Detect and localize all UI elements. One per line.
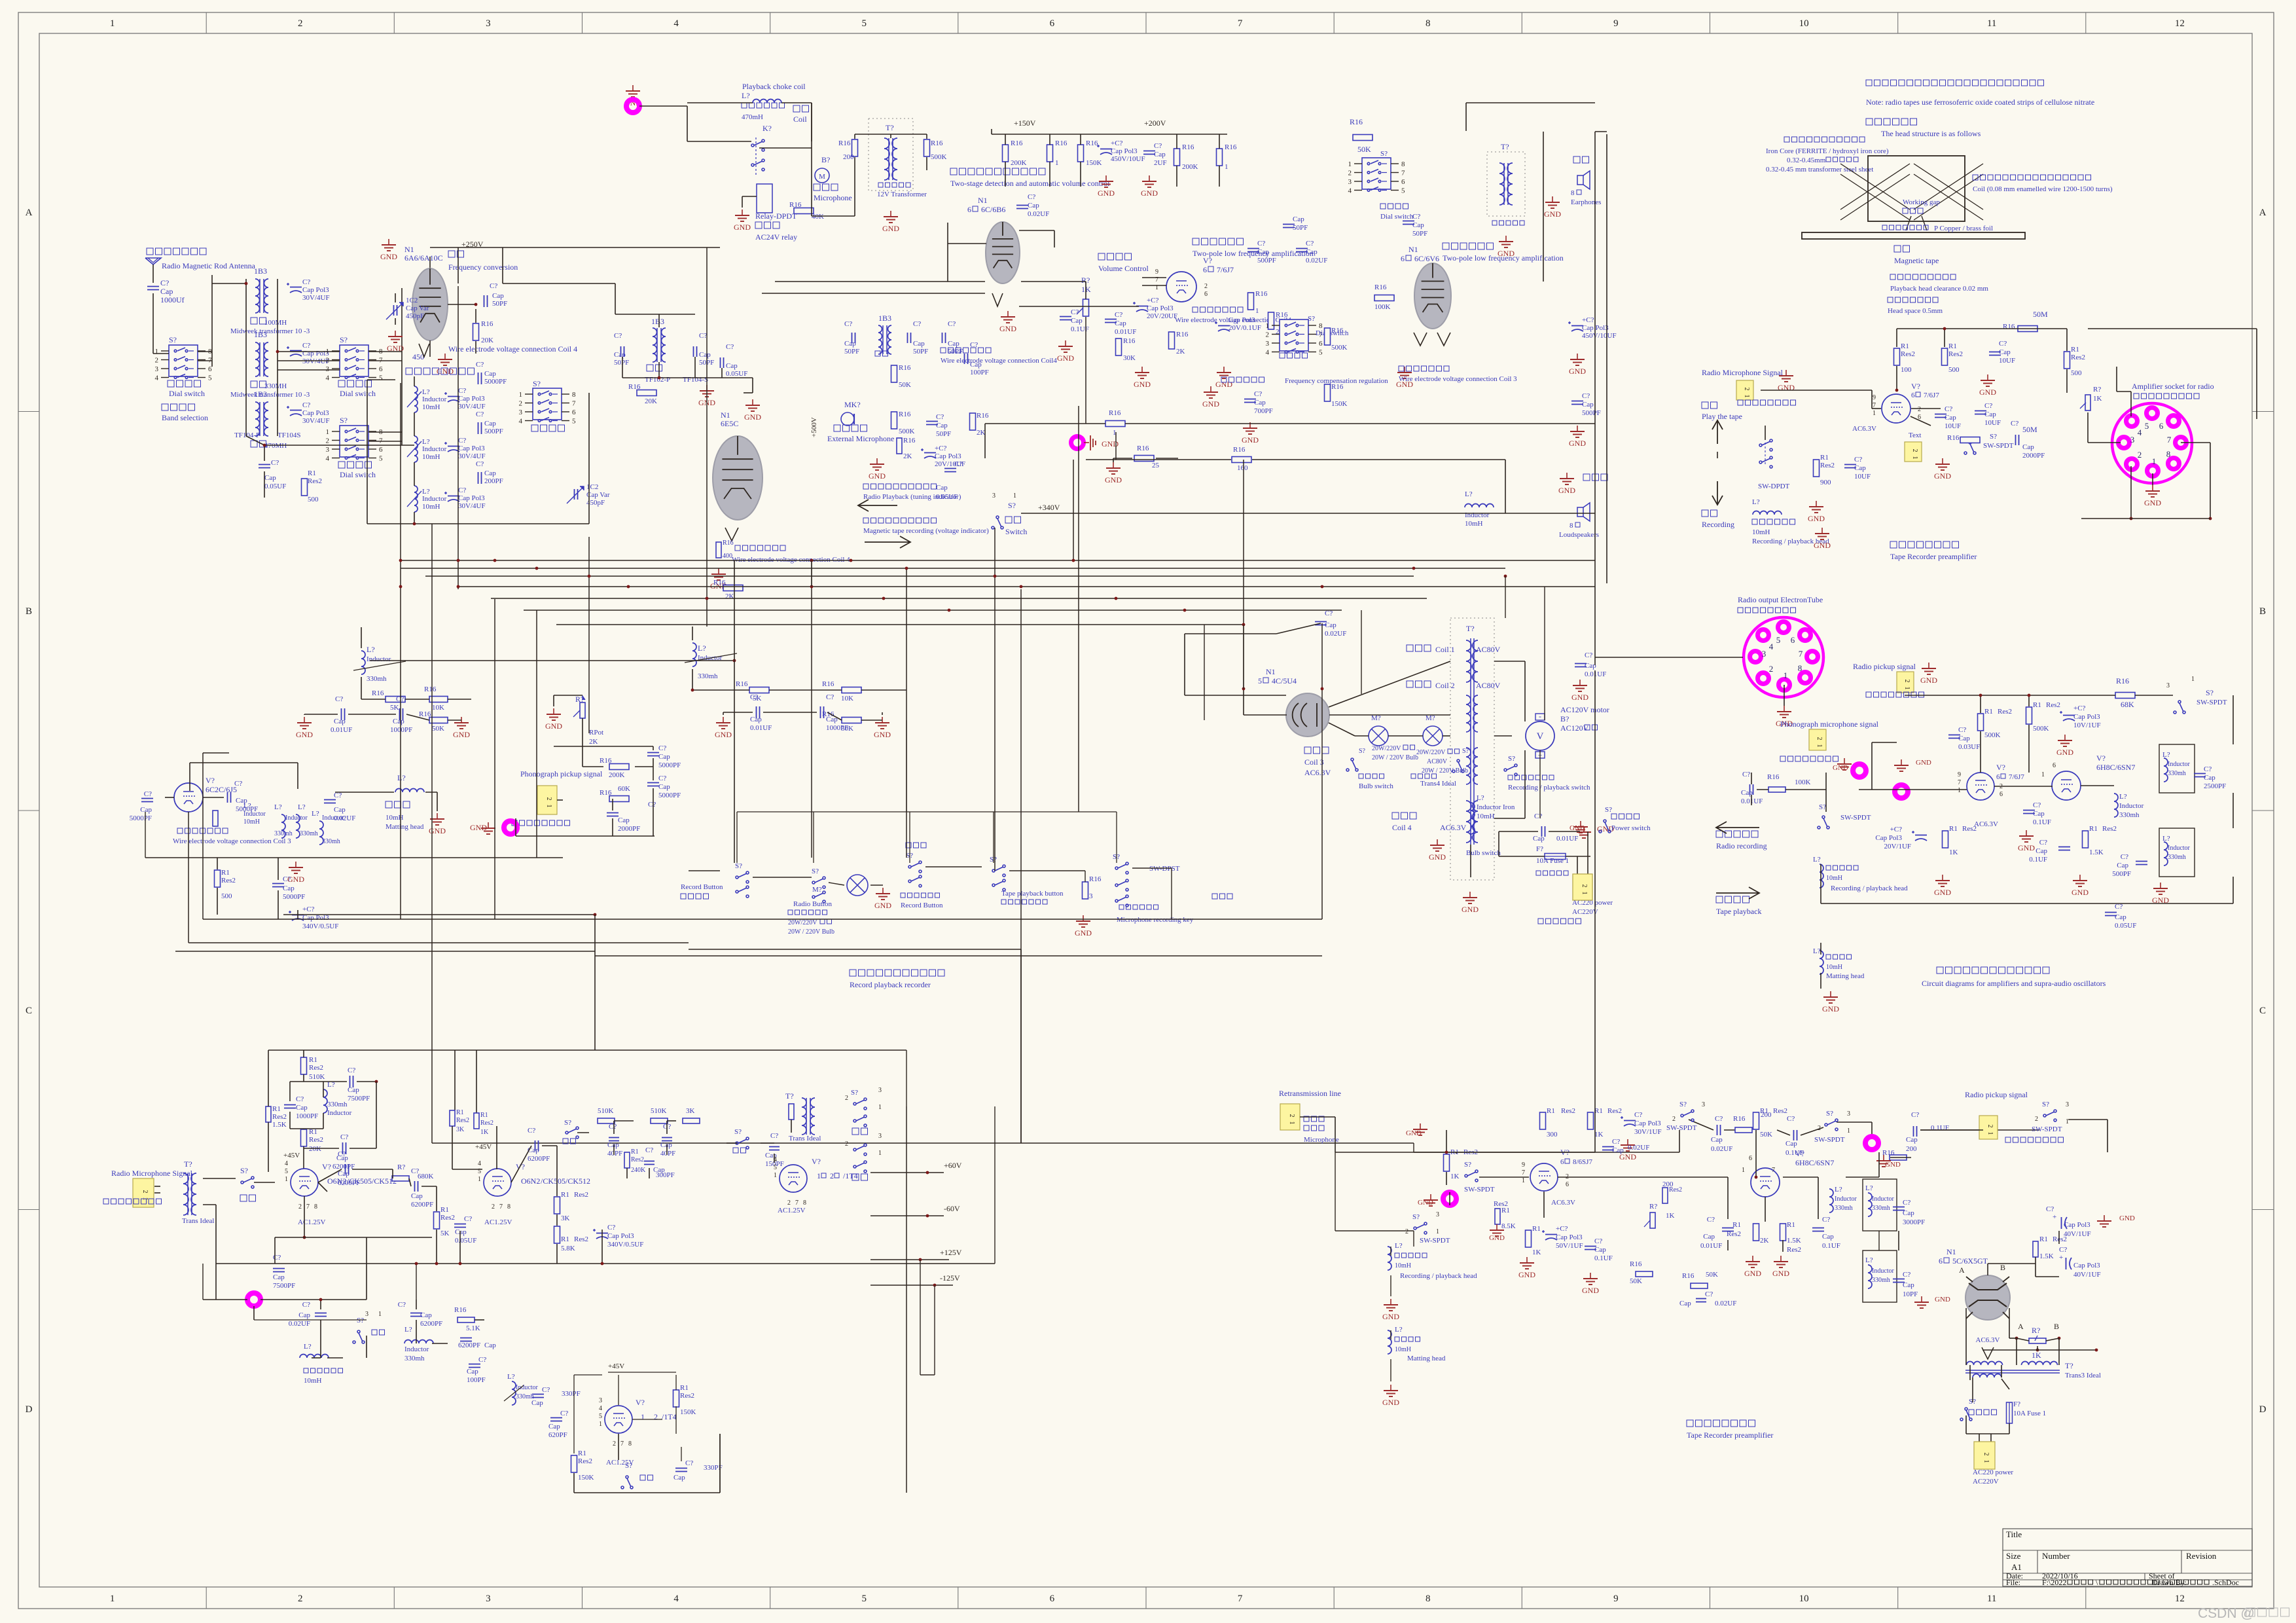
svg-text:/1T4: /1T4	[662, 1412, 677, 1421]
svg-text:Res2: Res2	[680, 1392, 694, 1400]
svg-text:R16: R16	[822, 680, 834, 688]
svg-text:Res2: Res2	[1948, 350, 1963, 358]
svg-text:Cap Pol3: Cap Pol3	[458, 494, 485, 502]
svg-text:R16: R16	[1350, 117, 1363, 126]
svg-text:330mh: 330mh	[2168, 854, 2186, 861]
svg-text:12: 12	[2175, 18, 2185, 29]
svg-text:7: 7	[620, 1440, 624, 1448]
svg-text:20K: 20K	[645, 397, 657, 405]
svg-text:N1: N1	[1266, 667, 1276, 676]
svg-text:C?: C?	[1612, 1138, 1620, 1146]
svg-text:2: 2	[1911, 449, 1918, 452]
svg-text:R16: R16	[838, 139, 851, 147]
svg-text:7: 7	[499, 1203, 503, 1211]
svg-text:68K: 68K	[2121, 700, 2134, 709]
svg-text:30V/4UF: 30V/4UF	[458, 403, 486, 410]
svg-text:3: 3	[1348, 178, 1352, 186]
svg-text:470mH: 470mH	[742, 113, 763, 121]
svg-text:1: 1	[1847, 1127, 1850, 1135]
svg-text:Wire electrode voltage connect: Wire electrode voltage connection Coil 4	[448, 344, 577, 354]
svg-text:10PF: 10PF	[1903, 1290, 1918, 1298]
svg-text:Cap: Cap	[2117, 862, 2128, 869]
svg-text:Title: Title	[2006, 1529, 2022, 1539]
svg-text:2: 2	[545, 797, 552, 801]
svg-text:200: 200	[843, 153, 854, 161]
svg-text:50M: 50M	[2033, 310, 2048, 319]
svg-text:MK?: MK?	[844, 400, 861, 409]
svg-text:Microphone recording key: Microphone recording key	[1117, 916, 1194, 924]
svg-text:Cap: Cap	[1071, 317, 1083, 325]
svg-text:2: 2	[519, 400, 523, 408]
svg-text:7: 7	[306, 1203, 310, 1211]
svg-text:C?: C?	[1999, 340, 2007, 348]
svg-text:Radio Microphone Signal: Radio Microphone Signal	[111, 1169, 193, 1178]
svg-text:T?: T?	[785, 1091, 794, 1101]
svg-text:500K: 500K	[1331, 344, 1348, 352]
svg-text:GND: GND	[296, 730, 313, 739]
svg-text:Cap: Cap	[660, 1141, 672, 1149]
svg-text:Cap: Cap	[1958, 735, 1970, 742]
svg-text:C?: C?	[913, 320, 921, 328]
svg-text:Radio output ElectronTube: Radio output ElectronTube	[1738, 595, 1823, 604]
svg-text:Cap: Cap	[658, 753, 670, 761]
svg-text:5: 5	[599, 1413, 602, 1420]
svg-text:R1: R1	[2039, 1235, 2048, 1243]
svg-text:Cap Pol3: Cap Pol3	[1111, 147, 1138, 155]
svg-text:+C?: +C?	[1556, 1225, 1568, 1233]
svg-text:R1: R1	[1984, 708, 1993, 716]
svg-text:Note: radio tapes use ferrosof: Note: radio tapes use ferrosoferric oxid…	[1866, 98, 2094, 107]
svg-text:Record Button: Record Button	[681, 883, 723, 891]
svg-text:2: 2	[787, 1199, 791, 1207]
svg-text:V?: V?	[636, 1398, 645, 1407]
svg-text:N1: N1	[1946, 1247, 1956, 1256]
svg-text:GND: GND	[999, 324, 1016, 333]
svg-text:R16: R16	[1233, 446, 1246, 454]
svg-text:7: 7	[1772, 1167, 1775, 1174]
svg-text:Res2: Res2	[1607, 1107, 1622, 1115]
svg-text:R16: R16	[713, 579, 726, 587]
svg-text:6: 6	[1401, 254, 1405, 263]
svg-text:5: 5	[285, 1168, 288, 1175]
svg-text:6: 6	[1911, 392, 1915, 399]
svg-text:100: 100	[1901, 366, 1912, 374]
svg-text:Res2: Res2	[2046, 701, 2060, 709]
svg-text:+C?: +C?	[302, 905, 315, 913]
svg-text:6: 6	[1204, 291, 1208, 298]
svg-text:3: 3	[878, 1087, 882, 1094]
svg-text:Res2: Res2	[1773, 1107, 1787, 1115]
svg-text:+C?: +C?	[2073, 704, 2086, 712]
svg-text:Cap: Cap	[913, 340, 925, 348]
svg-text:330MH: 330MH	[264, 382, 287, 390]
svg-text:A1: A1	[2011, 1562, 2022, 1572]
svg-text:6200PF: 6200PF	[420, 1320, 442, 1328]
svg-text:500PF: 500PF	[484, 428, 503, 435]
svg-text:C?: C?	[1903, 1199, 1910, 1207]
svg-text:Res2: Res2	[578, 1457, 592, 1465]
svg-text:10mH: 10mH	[1826, 964, 1842, 971]
svg-text:0.05UF: 0.05UF	[936, 493, 958, 501]
svg-text:2500PF: 2500PF	[2204, 782, 2226, 790]
svg-text:S?: S?	[1826, 1110, 1833, 1118]
svg-text:Circuit diagrams for amplifier: Circuit diagrams for amplifiers and supr…	[1922, 979, 2106, 988]
svg-text:+: +	[2053, 1213, 2056, 1221]
svg-text:GND: GND	[1934, 888, 1951, 897]
svg-text:AC1.25V: AC1.25V	[484, 1218, 512, 1226]
svg-text:S?: S?	[340, 335, 348, 344]
svg-text:10mH: 10mH	[422, 503, 440, 511]
svg-text:L?: L?	[1752, 498, 1760, 506]
svg-text:R1: R1	[309, 1128, 317, 1136]
svg-text:R1: R1	[1501, 1207, 1510, 1214]
svg-text:2: 2	[155, 357, 159, 365]
svg-text:1: 1	[1742, 1167, 1745, 1174]
svg-text:Cap: Cap	[298, 1311, 310, 1319]
svg-text:Recording / playback head: Recording / playback head	[1831, 884, 1908, 892]
svg-text:50M: 50M	[2022, 425, 2037, 434]
svg-text:C?: C?	[954, 460, 962, 468]
svg-text:50K: 50K	[1630, 1277, 1642, 1285]
svg-text:GND: GND	[1134, 380, 1151, 389]
svg-text:R16: R16	[628, 383, 641, 391]
svg-text:3: 3	[878, 1133, 882, 1140]
svg-text:Tape Recorder preamplifier: Tape Recorder preamplifier	[1687, 1431, 1773, 1440]
svg-text:0.05UF: 0.05UF	[455, 1237, 476, 1245]
svg-text:Cap: Cap	[334, 718, 346, 725]
svg-text:L?: L?	[507, 1373, 515, 1381]
svg-text:Inductor: Inductor	[422, 445, 447, 453]
svg-text:File:: File:	[2006, 1578, 2020, 1587]
svg-text:R1: R1	[2089, 825, 2098, 833]
svg-text:AC6.3V: AC6.3V	[1304, 768, 1331, 777]
svg-text:Radio Magnetic Rod Antenna: Radio Magnetic Rod Antenna	[162, 261, 256, 270]
svg-text:C?: C?	[1306, 240, 1314, 247]
svg-text:1: 1	[1348, 160, 1352, 168]
svg-text:SW-SPDT: SW-SPDT	[1420, 1237, 1450, 1245]
svg-text:2: 2	[1672, 1116, 1676, 1123]
svg-text:Revision: Revision	[2186, 1551, 2217, 1561]
svg-text:1B3: 1B3	[254, 330, 267, 339]
svg-text:C?: C?	[411, 1167, 419, 1175]
svg-text:C?: C?	[844, 320, 852, 328]
svg-text:M?: M?	[812, 886, 822, 894]
svg-text:GND: GND	[1462, 905, 1479, 914]
svg-text:1: 1	[478, 1176, 481, 1183]
svg-text:N1: N1	[721, 410, 730, 420]
svg-text:Power switch: Power switch	[1611, 824, 1651, 832]
svg-text:C?: C?	[699, 332, 707, 340]
svg-text:0.01UF: 0.01UF	[1556, 835, 1578, 843]
svg-text:3: 3	[486, 18, 491, 29]
svg-text:/1T4: /1T4	[843, 1171, 858, 1180]
svg-text:1: 1	[1784, 670, 1788, 680]
svg-text:GND: GND	[380, 252, 397, 261]
svg-text:Cap: Cap	[2036, 847, 2047, 855]
svg-text:Cap: Cap	[334, 806, 346, 814]
svg-text:C?: C?	[302, 278, 310, 286]
svg-text:Cap: Cap	[1854, 464, 1866, 472]
svg-text:0.02UF: 0.02UF	[289, 1320, 310, 1328]
svg-text:40PF: 40PF	[660, 1150, 675, 1158]
svg-text:7: 7	[1522, 1169, 1525, 1176]
svg-text:L?: L?	[274, 803, 282, 811]
svg-text:C?: C?	[750, 693, 758, 701]
svg-text:10V/1UF: 10V/1UF	[2073, 721, 2101, 729]
svg-text:Coil 2: Coil 2	[1435, 681, 1455, 690]
svg-text:C?: C?	[614, 332, 622, 340]
svg-text:R16: R16	[1882, 1149, 1895, 1157]
svg-text:4: 4	[599, 1405, 602, 1412]
svg-text:2: 2	[845, 1095, 848, 1102]
svg-text:GND: GND	[1382, 1398, 1399, 1407]
svg-text:C?: C?	[458, 486, 466, 494]
svg-text:Cap: Cap	[699, 351, 711, 359]
svg-text:Dial switch: Dial switch	[169, 389, 205, 398]
svg-text:200K: 200K	[1011, 159, 1027, 167]
svg-text:50V/1UF: 50V/1UF	[1556, 1242, 1583, 1250]
svg-text:GND: GND	[1098, 189, 1115, 198]
svg-text:Cap: Cap	[1711, 1136, 1723, 1144]
svg-text:O6N2: O6N2	[521, 1176, 540, 1186]
svg-text:330mh: 330mh	[404, 1355, 425, 1362]
svg-text:0.1UF: 0.1UF	[2029, 856, 2047, 864]
svg-text:1: 1	[1255, 307, 1259, 315]
svg-text:R16: R16	[1374, 283, 1387, 291]
svg-text:2K: 2K	[977, 429, 986, 437]
svg-text:-: -	[1539, 712, 1541, 721]
svg-text:L?: L?	[367, 645, 375, 654]
svg-text:AC1.25V: AC1.25V	[778, 1207, 806, 1214]
svg-text:470MH: 470MH	[264, 442, 287, 450]
svg-text:1: 1	[326, 428, 330, 436]
svg-text:AC6.3V: AC6.3V	[1551, 1199, 1575, 1207]
svg-text:50PF: 50PF	[1412, 230, 1427, 238]
svg-text:5.1K: 5.1K	[466, 1324, 480, 1332]
svg-text:Playback choke coil: Playback choke coil	[742, 82, 806, 91]
svg-text:2: 2	[1288, 1114, 1295, 1118]
svg-text:SW-DPST: SW-DPST	[1149, 865, 1180, 873]
svg-text:GND: GND	[2056, 748, 2073, 757]
svg-text:3K: 3K	[456, 1126, 465, 1133]
svg-text:10mH: 10mH	[422, 453, 440, 461]
svg-text:Record Button: Record Button	[901, 902, 943, 909]
svg-text:1: 1	[1225, 163, 1229, 171]
svg-text:Cap: Cap	[160, 287, 173, 296]
svg-text:GND: GND	[2072, 888, 2089, 897]
svg-text:Coil: Coil	[793, 115, 807, 124]
svg-text:20K: 20K	[481, 337, 493, 344]
svg-text:R16: R16	[1630, 1260, 1642, 1268]
svg-text:GND: GND	[545, 721, 562, 731]
svg-text:Record playback recorder: Record playback recorder	[850, 980, 931, 989]
svg-text:+340V: +340V	[1038, 503, 1060, 512]
svg-text:Res2: Res2	[221, 877, 236, 884]
svg-text:30V/4UF: 30V/4UF	[302, 357, 330, 365]
svg-text:2K: 2K	[1176, 348, 1185, 356]
svg-text:20V/0.1UF: 20V/0.1UF	[1229, 324, 1261, 332]
svg-text:C?: C?	[271, 459, 279, 467]
svg-text:6: 6	[2000, 791, 2003, 798]
svg-text:S?: S?	[735, 862, 742, 870]
svg-text:GND: GND	[1822, 1004, 1839, 1013]
svg-text:Microphone: Microphone	[1304, 1136, 1339, 1144]
svg-text:C?: C?	[770, 1132, 778, 1140]
svg-text:330mh: 330mh	[2119, 811, 2140, 819]
svg-text:Recording: Recording	[1702, 520, 1734, 529]
svg-text:Dial switch: Dial switch	[340, 470, 376, 479]
svg-text:10: 10	[1799, 1594, 1809, 1604]
svg-text:S?: S?	[1464, 1161, 1471, 1169]
svg-text:10UF: 10UF	[1945, 422, 1961, 430]
svg-text:10mH: 10mH	[304, 1377, 322, 1385]
svg-text:Cap Pol3: Cap Pol3	[302, 286, 329, 294]
svg-text:510K: 510K	[309, 1073, 325, 1081]
svg-text:200K: 200K	[1182, 163, 1198, 171]
svg-text:C?: C?	[1028, 193, 1035, 201]
svg-text:4: 4	[673, 18, 679, 29]
svg-text:Cap: Cap	[283, 884, 295, 892]
svg-text:1: 1	[1903, 687, 1910, 690]
svg-text:L?: L?	[1813, 947, 1821, 955]
svg-text:R16: R16	[2116, 676, 2129, 685]
svg-text:S?: S?	[1412, 1213, 1420, 1221]
svg-text:Bulb switch: Bulb switch	[1359, 782, 1393, 790]
svg-text:Cap: Cap	[614, 351, 626, 359]
svg-text:Trans Ideal: Trans Ideal	[182, 1217, 214, 1225]
svg-text:2: 2	[1903, 680, 1910, 683]
svg-text:30V/4UF: 30V/4UF	[458, 502, 486, 510]
svg-text:C?: C?	[2046, 1205, 2054, 1213]
svg-text:+500V: +500V	[810, 417, 818, 437]
svg-text:Cap: Cap	[264, 474, 276, 482]
svg-text:Inductor: Inductor	[1872, 1195, 1895, 1203]
svg-text:8: 8	[1401, 160, 1405, 168]
svg-text:Trans4 Ideal: Trans4 Ideal	[1420, 780, 1456, 788]
svg-text:5000PF: 5000PF	[658, 761, 681, 769]
svg-text:1: 1	[1982, 1460, 1990, 1463]
svg-text:L?: L?	[1395, 1326, 1403, 1334]
svg-text:Cap: Cap	[467, 1368, 478, 1376]
svg-text:R1: R1	[2033, 701, 2041, 709]
svg-text:C: C	[26, 1006, 32, 1016]
svg-text:T?: T?	[886, 123, 894, 132]
svg-text:R16: R16	[1682, 1272, 1695, 1280]
svg-text:C?: C?	[2011, 420, 2018, 428]
svg-text:S?: S?	[851, 1089, 858, 1097]
svg-text:2: 2	[141, 1190, 149, 1194]
svg-text:10UF: 10UF	[1999, 357, 2015, 365]
svg-text:AC220V: AC220V	[1973, 1478, 1999, 1486]
svg-text:Cap: Cap	[484, 1341, 496, 1349]
svg-text:5C/6X5GT: 5C/6X5GT	[1952, 1256, 1988, 1266]
svg-text:100K: 100K	[1374, 303, 1391, 311]
svg-text:12V Transformer: 12V Transformer	[877, 191, 927, 198]
svg-text:AC6.3V: AC6.3V	[1976, 1336, 2000, 1344]
svg-text:4: 4	[326, 455, 330, 463]
svg-text:S?: S?	[1679, 1101, 1687, 1108]
svg-text:Cap Var: Cap Var	[406, 304, 429, 312]
svg-text:1: 1	[519, 391, 523, 399]
svg-text:3000PF: 3000PF	[1903, 1218, 1925, 1226]
svg-text:C?: C?	[1854, 456, 1862, 464]
svg-text:F?: F?	[2013, 1400, 2020, 1408]
svg-text:S?: S?	[1462, 748, 1469, 755]
svg-text:Res2: Res2	[631, 1156, 644, 1163]
svg-text:2: 2	[1405, 1228, 1408, 1235]
svg-text:1C2: 1C2	[586, 483, 598, 491]
svg-text:Cap: Cap	[484, 370, 496, 378]
svg-text:8: 8	[1571, 189, 1575, 197]
svg-text:2: 2	[654, 1412, 658, 1421]
svg-text:Wire electrode voltage connect: Wire electrode voltage connection Coil 3	[1399, 375, 1517, 383]
svg-text:R16: R16	[1767, 773, 1780, 781]
svg-text:3: 3	[326, 365, 330, 373]
svg-text:20K: 20K	[309, 1145, 321, 1153]
svg-text:+125V: +125V	[940, 1248, 962, 1257]
svg-text:Res2: Res2	[1787, 1246, 1801, 1254]
svg-text:N1: N1	[978, 196, 988, 205]
svg-text:500K: 500K	[1984, 731, 2001, 739]
svg-text:1: 1	[110, 18, 115, 29]
svg-text:+C?: +C?	[1111, 139, 1123, 147]
svg-text:L?: L?	[742, 91, 750, 100]
svg-text:R1: R1	[480, 1112, 488, 1119]
svg-text:Cap Pol3: Cap Pol3	[1875, 834, 1902, 842]
svg-text:2: 2	[1982, 1453, 1990, 1456]
svg-text:2: 2	[1743, 388, 1750, 391]
svg-text:10mH: 10mH	[1395, 1262, 1411, 1269]
svg-text:0.02UF: 0.02UF	[1306, 257, 1327, 264]
svg-text:20V/20UF: 20V/20UF	[1147, 312, 1177, 320]
svg-text:B?: B?	[1560, 714, 1569, 723]
svg-text:9: 9	[1958, 771, 1961, 778]
svg-text:+C?: +C?	[935, 445, 947, 452]
svg-text:GND: GND	[1979, 388, 1996, 397]
svg-text:L?: L?	[298, 803, 306, 811]
svg-text:+45V: +45V	[608, 1362, 624, 1370]
svg-text:GND: GND	[734, 223, 751, 232]
svg-text:C?: C?	[1911, 1111, 1919, 1119]
svg-text:Inductor: Inductor	[404, 1345, 429, 1353]
svg-text:7500PF: 7500PF	[348, 1095, 370, 1103]
svg-text:C?: C?	[1154, 142, 1162, 150]
svg-text:1B3: 1B3	[878, 314, 891, 323]
svg-text:5: 5	[1319, 349, 1323, 357]
svg-text:6E5C: 6E5C	[721, 419, 738, 428]
svg-text:Coil 3: Coil 3	[1304, 757, 1324, 767]
svg-text:330mh: 330mh	[274, 830, 293, 837]
svg-text:R?: R?	[2093, 386, 2101, 393]
svg-text:Playback head clearance 0.02 m: Playback head clearance 0.02 mm	[1890, 285, 1988, 293]
svg-text:Cap Pol3: Cap Pol3	[2073, 1262, 2100, 1269]
svg-text:GND: GND	[1418, 1199, 1433, 1207]
svg-text:Volume Control: Volume Control	[1098, 264, 1149, 273]
svg-text:60K: 60K	[618, 785, 630, 793]
svg-text:GND: GND	[1202, 399, 1219, 409]
svg-text:Cap: Cap	[420, 1311, 432, 1319]
svg-text:4: 4	[1769, 642, 1774, 651]
svg-text:200: 200	[1906, 1145, 1917, 1153]
svg-text:1: 1	[878, 1150, 882, 1157]
svg-text:Cap: Cap	[1325, 621, 1336, 629]
svg-text:5000PF: 5000PF	[484, 378, 507, 386]
svg-text:C?: C?	[1958, 726, 1966, 734]
svg-text:S?: S?	[812, 867, 819, 875]
svg-text:S?: S?	[533, 379, 541, 388]
svg-text:AC220 power: AC220 power	[1973, 1468, 2013, 1476]
svg-text:300PF: 300PF	[656, 1171, 675, 1179]
